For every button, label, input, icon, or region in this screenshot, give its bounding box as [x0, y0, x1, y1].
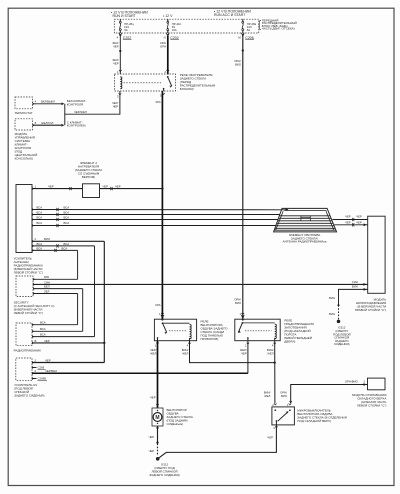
- radio receiver dashed box: [16, 323, 32, 346]
- wire VIO tall box row going down column x104: [32, 237, 104, 241]
- svg-text:СИН: СИН: [352, 280, 358, 284]
- security antenna element dashed box: [16, 276, 33, 297]
- svg-text:ВСА: ВСА: [64, 242, 70, 246]
- wire ORN/VIO fuse F4C down to relay K3: [234, 36, 244, 321]
- antenna amplifier tall box: [16, 185, 32, 253]
- wire radio row 1: [32, 321, 78, 325]
- svg-text:ВСА: ВСА: [37, 215, 43, 219]
- svg-text:N: N: [164, 36, 166, 40]
- svg-text:ЖЕЛ: ЖЕЛ: [267, 352, 273, 356]
- svg-text:ВКЛ/ВЫКЛ: ВКЛ/ВЫКЛ: [41, 100, 55, 104]
- svg-text:КОНТРОЛЕМ: КОНТРОЛЕМ: [67, 124, 86, 128]
- svg-text:ВСА: ВСА: [40, 327, 46, 331]
- svg-text:ЧЕР: ЧЕР: [345, 221, 351, 225]
- ground G312 bottom: [149, 457, 179, 477]
- svg-text:ЗАДНЕГО СИДЕНЬЯ): ЗАДНЕГО СИДЕНЬЯ): [14, 394, 44, 398]
- svg-text:ЧЕР: ЧЕР: [44, 339, 50, 343]
- svg-text:10А: 10А: [172, 28, 177, 32]
- heated element 2 box: [83, 184, 100, 198]
- svg-text:С269: С269: [38, 366, 45, 370]
- node B+ label left: 12V RUN/START: [111, 11, 148, 18]
- svg-text:ЧЕР: ЧЕР: [113, 104, 119, 108]
- svg-text:ПРАВОЙ СТОЙКИ "С"): ПРАВОЙ СТОЙКИ "С"): [355, 308, 386, 312]
- wire RED/ORG fuse F9 to relay K1 pin 2: [160, 36, 168, 75]
- svg-text:ЧЕР: ЧЕР: [149, 449, 155, 453]
- svg-text:5А: 5А: [247, 28, 251, 32]
- svg-text:M: M: [155, 415, 159, 421]
- blower motor box: [150, 396, 163, 426]
- svg-text:ВИН: ВИН: [329, 296, 335, 300]
- svg-text:КОНСОЛЬЮ): КОНСОЛЬЮ): [15, 157, 34, 161]
- svg-text:ВИО: ВИО: [44, 237, 51, 241]
- svg-text:ЖЕЛ/ГОЛ: ЖЕЛ/ГОЛ: [41, 121, 54, 125]
- fuse F4C: [242, 19, 257, 33]
- svg-text:ЧЕР: ЧЕР: [115, 185, 121, 189]
- wire YEL/BLK relay K3 to LF amp bus: [247, 341, 249, 374]
- svg-text:СИДЕнЬем): СИДЕнЬем): [167, 422, 184, 426]
- wire thermostat pin 4: [33, 100, 62, 104]
- svg-text:В: В: [35, 339, 37, 343]
- grid element label: [283, 233, 327, 244]
- drain wire GRN from noise module to ground G312: [329, 285, 368, 323]
- svg-text:ПОД СКЛАДНОЙ ВЕРХ): ПОД СКЛАДНОЙ ВЕРХ): [297, 419, 331, 423]
- relay K2 rear window blower relay box: [154, 319, 196, 341]
- wire amp row 3 WHT: [33, 285, 83, 289]
- svg-text:ЛЕВОЙ СТОЙКИ "С"): ЛЕВОЙ СТОЙКИ "С"): [14, 270, 43, 274]
- svg-text:ВСА: ВСА: [64, 215, 70, 219]
- wire BLK motor to ground G312: [149, 426, 159, 456]
- svg-text:ВИН: ВИН: [329, 312, 335, 316]
- svg-text:• 12 V: • 12 V: [163, 14, 173, 18]
- svg-text:С206: С206: [245, 36, 253, 40]
- node B+ label mid: 12V: [163, 14, 173, 18]
- wire radio row 3: [32, 333, 95, 337]
- wire BLK right: element 2 to junction on RED feed: [100, 185, 163, 191]
- vertical link column x94: [94, 246, 96, 337]
- svg-text:RUN ACC И START: RUN ACC И START: [214, 13, 246, 17]
- svg-text:ЧЕР: ЧЕР: [267, 435, 273, 439]
- svg-text:ВИН: ВИН: [352, 285, 358, 289]
- svg-text:ЧЕР/БЕЛ: ЧЕР/БЕЛ: [45, 369, 57, 373]
- relay K2 label: [201, 320, 229, 342]
- svg-text:ВСА: ВСА: [64, 221, 70, 225]
- tall box label: [14, 256, 43, 274]
- relay K1 label: [180, 73, 216, 91]
- rear window defogger grid element (trapezoid): [274, 208, 337, 232]
- node B+ label right: 12V RUN ACC/START: [214, 10, 251, 17]
- vertical link column x104: [103, 241, 105, 362]
- svg-text:ЛЕВОЙ СТОЙКИ "С"): ЛЕВОЙ СТОЙКИ "С"): [357, 403, 386, 407]
- svg-text:5А: 5А: [124, 28, 128, 32]
- wire BLK microswitch to ground run: [158, 425, 276, 459]
- svg-text:ЧЕР: ЧЕР: [113, 62, 119, 66]
- LF amplifier dashed box: [16, 358, 32, 380]
- svg-text:ВСА: ВСА: [37, 205, 43, 209]
- relay K3 pin labels: [240, 344, 274, 356]
- svg-text:ОРН/ВИО: ОРН/ВИО: [345, 380, 359, 384]
- svg-text:БЕЛ: БЕЛ: [44, 285, 50, 289]
- LF amplifier label: [14, 383, 44, 398]
- microswitch box: [272, 403, 295, 430]
- fuse box (front distribution block) dashed enclosure: [114, 19, 258, 33]
- relay K2 pin labels: [150, 344, 189, 356]
- wire BLK grid to noise module upper: [332, 215, 367, 221]
- svg-text:ВСА: ВСА: [64, 210, 70, 214]
- svg-text:ЖЕЛ: ЖЕЛ: [264, 394, 270, 398]
- svg-text:ЧЕР: ЧЕР: [113, 44, 119, 48]
- svg-text:ЧЕР: ЧЕР: [345, 215, 351, 219]
- wire BRN/YEL relay K3 coil down to microswitch: [264, 341, 276, 404]
- fuse box brace: [258, 20, 261, 29]
- svg-text:ВИО: ВИО: [281, 394, 288, 398]
- blower motor label: [167, 408, 193, 426]
- bus wire 1 to rear window grid: [32, 205, 289, 211]
- wire BLK/YEL relay K2 to blower motor: [157, 341, 159, 408]
- heated element 2 label: [75, 161, 102, 179]
- svg-text:ЧЕР: ЧЕР: [48, 185, 54, 189]
- svg-text:БЛОКОМ): БЛОКОМ): [180, 87, 194, 91]
- svg-text:ЖЕЛ: ЖЕЛ: [182, 352, 188, 356]
- svg-text:С269В: С269В: [38, 377, 47, 381]
- svg-text:ПРИБОРОВ): ПРИБОРОВ): [201, 337, 219, 341]
- wire amp row 1 RED: [33, 275, 78, 279]
- svg-text:ВЕРХОМ): ВЕРХОМ): [82, 175, 96, 179]
- svg-text:ТЕРМОСТАТ: ТЕРМОСТАТ: [15, 111, 33, 115]
- svg-text:ВСА: ВСА: [37, 242, 43, 246]
- long wire BLK/WHT LF amp to relay K3: [32, 369, 248, 373]
- svg-text:ЖЕЛ: ЖЕЛ: [150, 352, 156, 356]
- radio label: [14, 348, 42, 352]
- svg-text:КОНТРОЛЯ: КОНТРОЛЯ: [67, 102, 83, 106]
- wire climate module pin 8: [33, 121, 62, 125]
- vertical link column x77 upper: [77, 250, 79, 279]
- svg-text:ЛЕВОЙ СТОЙКИ "С"): ЛЕВОЙ СТОЙКИ "С"): [14, 311, 43, 315]
- fuse F22: [119, 19, 134, 33]
- svg-text:С202: С202: [123, 36, 131, 40]
- wire radio row 4 BLK pin B: [32, 339, 104, 343]
- svg-text:С202: С202: [170, 36, 178, 40]
- long wire BLU amp row to noise module: [33, 280, 368, 286]
- svg-text:ЗЕЛ: ЗЕЛ: [44, 289, 50, 293]
- svg-text:СИДЕНЬЯ): СИДЕНЬЯ): [334, 342, 350, 346]
- svg-text:ЧЕР: ЧЕР: [45, 358, 51, 362]
- svg-text:КРА: КРА: [44, 275, 49, 279]
- wire radio row 2: [32, 327, 83, 331]
- vertical link column x77 lower: [77, 294, 79, 325]
- svg-text:ЧЕР: ЧЕР: [356, 221, 362, 225]
- svg-text:ЧЕР: ЧЕР: [103, 185, 109, 189]
- wire BLK grid to noise module lower: [334, 221, 367, 227]
- folding top module label: [352, 393, 386, 408]
- folding top module box: [368, 378, 386, 390]
- wire BLK relay K1 coil to merge point: [65, 91, 120, 114]
- svg-text:КРА: КРА: [156, 100, 161, 104]
- wire amp LF row 1 BLK to column x104: [32, 358, 104, 362]
- wire tall box row to column x77: [32, 246, 78, 252]
- svg-text:ВСА: ВСА: [37, 246, 43, 250]
- relay K1 rear defogger relay box: [115, 74, 176, 99]
- svg-text:ВИО: ВИО: [235, 301, 242, 305]
- svg-text:ВСА: ВСА: [62, 246, 68, 250]
- svg-text:РАДИОПРИЕМНИК: РАДИОПРИЕМНИК: [14, 348, 42, 352]
- bus wire 3: [32, 215, 278, 221]
- merge bracket of thermostat / climate module wires: [61, 99, 86, 128]
- svg-text:ВИО: ВИО: [235, 62, 242, 66]
- svg-text:ДВЕРИ): ДВЕРИ): [284, 340, 295, 344]
- wire tall box row to column x94: [32, 242, 95, 248]
- svg-text:ЧЕР: ЧЕР: [149, 435, 155, 439]
- connector C202 pin 4: [117, 33, 132, 40]
- wire VIO/YEL relay K2 coil to junction: [190, 341, 275, 363]
- relay K3 label: [284, 319, 313, 344]
- wire ORN/VIO folding top module to microswitch: [280, 380, 367, 404]
- noise suppression module box: [368, 216, 385, 293]
- connector C206 pin M: [238, 33, 254, 40]
- microswitch label: [297, 409, 347, 424]
- svg-text:ЧАСТЬ ДВИГ. ОТСЕКА): ЧАСТЬ ДВИГ. ОТСЕКА): [262, 27, 295, 31]
- thermostat box: [15, 97, 33, 115]
- heavy RED feed wire from relay K1 output down to relay K2: [156, 91, 164, 321]
- svg-text:ЧЕР: ЧЕР: [150, 396, 156, 400]
- vertical link column x82: [82, 289, 84, 332]
- bus wire 4: [32, 221, 276, 227]
- stub connector C269B: [32, 377, 47, 381]
- svg-text:ЧЕР: ЧЕР: [356, 215, 362, 219]
- relay K3 defogger timer relay box: [235, 319, 280, 341]
- svg-text:ЧЕР: ЧЕР: [241, 352, 247, 356]
- svg-text:ОРН: ОРН: [160, 44, 166, 48]
- climate control module box: [15, 119, 38, 161]
- security antenna element label: [14, 300, 55, 315]
- stub connector C269: [32, 366, 46, 370]
- svg-text:ВСА: ВСА: [40, 321, 46, 325]
- fuse box label: [262, 18, 297, 30]
- svg-text:ВСА: ВСА: [64, 205, 70, 209]
- wire GRN/BLK fuse F22 to relay K1 pin 1: [112, 36, 121, 74]
- svg-text:RUN И START: RUN И START: [113, 14, 137, 18]
- svg-text:ВСА: ВСА: [40, 333, 46, 337]
- pin ticks: [32, 70, 292, 429]
- svg-text:ВСА: ВСА: [37, 210, 43, 214]
- noise module label: [355, 298, 387, 313]
- connector C202 pin N: [164, 33, 179, 40]
- svg-text:ВСА: ВСА: [37, 221, 43, 225]
- fuse F9: [167, 19, 182, 33]
- ground G312 right label: [333, 326, 351, 347]
- svg-text:КРА: КРА: [156, 303, 161, 307]
- svg-text:АНТЕННА РАДИОПРИЕМНИка: АНТЕННА РАДИОПРИЕМНИка: [283, 240, 327, 244]
- wire amp row 4 GRN: [33, 289, 78, 293]
- svg-text:ЗАДНЕГО СИДЕНЬЯ): ЗАДНЕГО СИДЕНЬЯ): [149, 473, 179, 477]
- bus wire 2: [32, 210, 280, 216]
- wire BLK left: radio box to element 2: [32, 185, 83, 191]
- svg-text:ЧЕР/ЖЕЛ: ЧЕР/ЖЕЛ: [74, 110, 87, 114]
